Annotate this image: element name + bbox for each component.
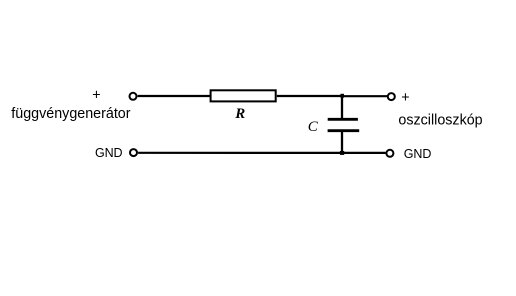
capacitor C top plate (328, 118, 358, 121)
wire: node A down to capacitor top plate (341, 96, 343, 119)
terminal left + (function generator plus terminal, open circle) (130, 93, 137, 100)
terminal right + (oscilloscope plus terminal, open circle) (388, 93, 395, 100)
capacitor C bottom plate (328, 129, 360, 132)
svg-text:oszcilloszkóp: oszcilloszkóp (398, 112, 482, 128)
svg-text:+: + (401, 90, 409, 106)
svg-text:C: C (308, 119, 319, 135)
svg-text:R: R (234, 106, 245, 122)
wire top-right: node A to oscilloscope terminal (342, 95, 387, 97)
wire top-mid: resistor to node A (277, 95, 342, 97)
node B junction dot (bottom) (340, 151, 344, 155)
wire top-left: terminal to resistor (138, 95, 210, 97)
svg-text:+: + (92, 87, 100, 103)
svg-text:GND: GND (95, 146, 123, 160)
resistor R (211, 90, 276, 101)
wire bottom: left GND to right GND through node B (138, 152, 385, 154)
wire: capacitor bottom plate down to node B (341, 131, 343, 153)
svg-text:függvénygenerátor: függvénygenerátor (11, 106, 130, 122)
svg-text:GND: GND (404, 147, 432, 161)
node A junction dot (top) (340, 94, 344, 98)
terminal left GND (open circle) (130, 149, 137, 156)
terminal right GND (open circle) (386, 150, 393, 157)
